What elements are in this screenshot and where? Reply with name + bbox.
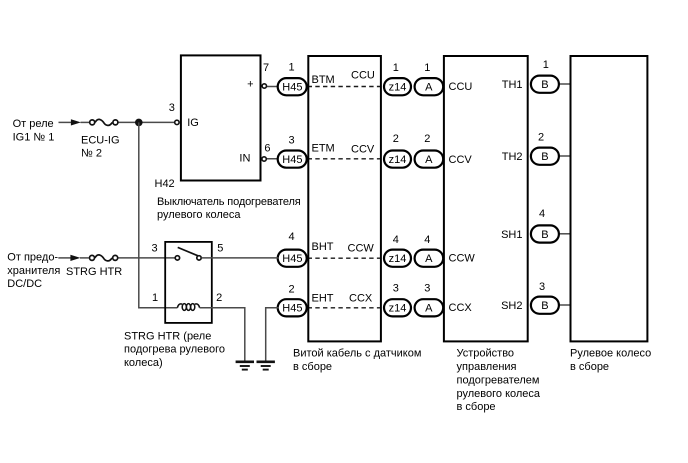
- pin number 3 above A row4: [424, 283, 430, 295]
- svg-text:7: 7: [263, 62, 269, 74]
- svg-text:3: 3: [539, 281, 545, 293]
- wire: relay coil pin2 to ground: [200, 308, 245, 361]
- svg-text:Устройство: Устройство: [457, 348, 515, 360]
- svg-text:Витой кабель с датчиком: Витой кабель с датчиком: [293, 347, 421, 359]
- svg-text:A: A: [425, 253, 433, 265]
- box relay STRG HTR: [165, 242, 212, 323]
- pin number 3 (IG): [169, 102, 175, 114]
- connector B row4 (SH2): [531, 297, 571, 314]
- pin number 2 above H45 row4: [288, 284, 294, 296]
- svg-text:SH2: SH2: [501, 300, 522, 312]
- label: От предохранителя DC/DC: [7, 251, 60, 290]
- svg-text:IG1 № 1: IG1 № 1: [13, 131, 55, 143]
- svg-text:B: B: [541, 300, 548, 312]
- pin 6 circle of H42: [262, 157, 279, 161]
- connector z14 row2: [384, 151, 411, 168]
- svg-text:1: 1: [152, 292, 158, 304]
- svg-text:B: B: [541, 79, 548, 91]
- relay pin number 5: [217, 243, 223, 255]
- svg-text:1: 1: [288, 62, 294, 74]
- svg-text:B: B: [541, 229, 548, 241]
- label STRG HTR (fuse): [66, 266, 122, 278]
- svg-text:3: 3: [288, 134, 294, 146]
- svg-text:Рулевое колесо: Рулевое колесо: [570, 348, 651, 360]
- svg-text:рулевого колеса: рулевого колеса: [457, 388, 541, 400]
- label H42: [155, 178, 175, 190]
- connector B row3 (SH1): [531, 225, 571, 242]
- svg-text:H45: H45: [282, 82, 302, 94]
- pin number 1 above A row1: [424, 62, 430, 74]
- connector H45 row3 (BHT): [278, 250, 307, 267]
- svg-text:ECU-IG: ECU-IG: [81, 134, 120, 146]
- pin number 3 above B row4: [539, 281, 545, 293]
- svg-text:5: 5: [217, 243, 223, 255]
- svg-text:CCX: CCX: [449, 302, 473, 314]
- wire: relay switch output to H45 row3: [201, 257, 278, 259]
- svg-text:рулевого колеса: рулевого колеса: [157, 209, 241, 221]
- svg-text:2: 2: [424, 133, 430, 145]
- svg-text:4: 4: [288, 231, 294, 243]
- svg-text:H45: H45: [282, 154, 302, 166]
- box heater control (Устройство управления): [444, 56, 528, 341]
- svg-text:CCX: CCX: [349, 293, 373, 305]
- svg-text:1: 1: [393, 62, 399, 74]
- svg-text:B: B: [541, 151, 548, 163]
- wire: IG1 feed row y=122.4: [59, 121, 175, 123]
- svg-text:A: A: [425, 154, 433, 166]
- svg-text:4: 4: [393, 234, 399, 246]
- connector A row3: [415, 250, 444, 267]
- svg-text:+: +: [247, 78, 253, 90]
- svg-text:z14: z14: [389, 253, 407, 265]
- svg-text:колеса): колеса): [124, 357, 163, 369]
- caption: STRG HTR (реле подогрева рулевого колеса): [124, 330, 225, 369]
- relay pin number 2: [216, 292, 222, 304]
- pin number 7: [263, 62, 269, 74]
- svg-text:z14: z14: [389, 82, 407, 94]
- box spiral cable (Витой кабель): [308, 56, 381, 341]
- label IN (pin 6 inside): [239, 153, 250, 165]
- label IG: [187, 117, 199, 129]
- pin number 3 above H45 row2: [288, 134, 294, 146]
- wire: STRG HTR feed row y=257.9: [58, 257, 175, 259]
- labels inside control box: [449, 79, 523, 314]
- svg-text:2: 2: [216, 292, 222, 304]
- svg-text:ETM: ETM: [312, 143, 335, 155]
- svg-text:SH1: SH1: [501, 229, 522, 241]
- pin number 6: [264, 142, 270, 154]
- wire dashed row1 BTM-CCU: [308, 86, 383, 88]
- pin number 1 above z14 row1: [393, 62, 399, 74]
- caption: Рулевое колесо в сборе: [570, 348, 651, 373]
- connector A row2: [415, 151, 444, 168]
- svg-text:z14: z14: [389, 303, 407, 315]
- wire dashed row3 BHT-CCW: [308, 257, 383, 259]
- connector B row1 (TH1): [531, 76, 571, 93]
- pin number 4 above H45 row3: [288, 231, 294, 243]
- pin number 1 above H45 row1: [288, 62, 294, 74]
- svg-text:CCW: CCW: [449, 252, 476, 264]
- pin number 4 above z14 row3: [393, 234, 399, 246]
- svg-text:CCU: CCU: [351, 69, 375, 81]
- svg-text:3: 3: [151, 243, 157, 255]
- svg-text:CCV: CCV: [449, 154, 473, 166]
- svg-text:IN: IN: [239, 153, 250, 165]
- ground 1: [236, 362, 254, 370]
- caption: Витой кабель с датчиком в сборе: [293, 347, 421, 372]
- labels inside spiral cable box: [312, 69, 375, 304]
- fuse ECU-IG No2: [90, 119, 118, 125]
- svg-text:подогрева рулевого: подогрева рулевого: [124, 344, 225, 356]
- connector B row2 (TH2): [531, 148, 571, 165]
- svg-text:H42: H42: [155, 178, 175, 190]
- relay switch contacts: [175, 247, 201, 260]
- pin number 1 above B row1: [543, 59, 549, 71]
- svg-text:1: 1: [424, 62, 430, 74]
- svg-text:управления: управления: [457, 361, 517, 373]
- svg-text:2: 2: [393, 133, 399, 145]
- connector z14 row1: [384, 78, 411, 95]
- svg-text:CCV: CCV: [351, 144, 375, 156]
- arrow: from relay IG1 No1: [71, 119, 81, 125]
- svg-text:STRG HTR: STRG HTR: [66, 266, 122, 278]
- svg-text:6: 6: [264, 142, 270, 154]
- box steering wheel (Рулевое колесо): [571, 56, 648, 341]
- connector z14 row4: [384, 299, 411, 316]
- wire dashed row2 ETM-CCV: [308, 158, 383, 160]
- pin number 4 above B row3: [539, 208, 545, 220]
- svg-text:в сборе: в сборе: [293, 361, 332, 373]
- relay pin number 3: [151, 243, 157, 255]
- connector H45 row2 (ETM): [278, 151, 307, 168]
- pin 3 circle of H42 (IG): [175, 120, 179, 124]
- svg-text:в сборе: в сборе: [570, 361, 609, 373]
- pin number 3 above z14 row4: [393, 283, 399, 295]
- svg-text:IG: IG: [187, 117, 199, 129]
- svg-text:подогревателем: подогревателем: [457, 374, 540, 386]
- svg-text:TH2: TH2: [502, 151, 523, 163]
- svg-text:2: 2: [538, 131, 544, 143]
- svg-text:STRG HTR (реле: STRG HTR (реле: [124, 330, 211, 342]
- connector A row4: [415, 299, 444, 316]
- pin 7 circle of H42: [262, 84, 279, 88]
- arrow: from fuse DC/DC: [70, 255, 80, 261]
- svg-text:z14: z14: [389, 154, 407, 166]
- svg-text:EHT: EHT: [312, 292, 334, 304]
- svg-text:3: 3: [393, 283, 399, 295]
- junction node: [135, 119, 143, 127]
- label: От реле IG1 № 1: [13, 118, 55, 143]
- svg-text:BHT: BHT: [312, 241, 334, 253]
- connector A row1: [415, 78, 444, 95]
- svg-text:№ 2: № 2: [81, 147, 102, 159]
- connector H45 row1 (BTM): [278, 78, 307, 95]
- relay coil: [177, 304, 199, 311]
- svg-text:2: 2: [288, 284, 294, 296]
- connector H45 row4 (EHT): [278, 299, 307, 316]
- caption: Выключатель подогревателя рулевого колеса: [157, 196, 301, 221]
- label + (pin 7 inside): [247, 78, 253, 90]
- pin number 2 above B row2: [538, 131, 544, 143]
- svg-text:4: 4: [424, 234, 430, 246]
- svg-text:хранителя: хранителя: [7, 265, 60, 277]
- svg-text:4: 4: [539, 208, 545, 220]
- box H42 heater switch: [181, 55, 261, 180]
- relay pin number 1: [152, 292, 158, 304]
- pin number 4 above A row3: [424, 234, 430, 246]
- svg-text:H45: H45: [282, 302, 302, 314]
- fuse STRG HTR: [90, 255, 118, 261]
- svg-text:3: 3: [424, 283, 430, 295]
- svg-text:TH1: TH1: [502, 79, 523, 91]
- wire dashed row4 EHT-CCX: [308, 307, 383, 309]
- svg-text:CCW: CCW: [348, 242, 375, 254]
- label: ECU-IG № 2: [81, 134, 120, 159]
- ground 2: [257, 362, 275, 370]
- svg-text:A: A: [425, 303, 433, 315]
- svg-text:Выключатель подогревателя: Выключатель подогревателя: [157, 196, 301, 208]
- svg-text:3: 3: [169, 102, 175, 114]
- svg-text:BTM: BTM: [312, 74, 335, 86]
- connector z14 row3: [384, 250, 411, 267]
- pin number 2 above A row2: [424, 133, 430, 145]
- svg-text:A: A: [425, 82, 433, 94]
- svg-text:в сборе: в сборе: [457, 401, 496, 413]
- wire: EHT H45 to ground 2: [266, 308, 279, 361]
- svg-text:От предо-: От предо-: [7, 251, 58, 263]
- svg-text:H45: H45: [282, 253, 302, 265]
- svg-text:CCU: CCU: [449, 81, 473, 93]
- svg-text:1: 1: [543, 59, 549, 71]
- pin number 2 above z14 row2: [393, 133, 399, 145]
- svg-text:От реле: От реле: [13, 118, 54, 130]
- caption: Устройство управления подогревателем рулевого колеса в сборе: [457, 348, 541, 414]
- svg-text:DC/DC: DC/DC: [7, 278, 42, 290]
- wire: junction riser down to relay coil pin1: [139, 122, 178, 307]
